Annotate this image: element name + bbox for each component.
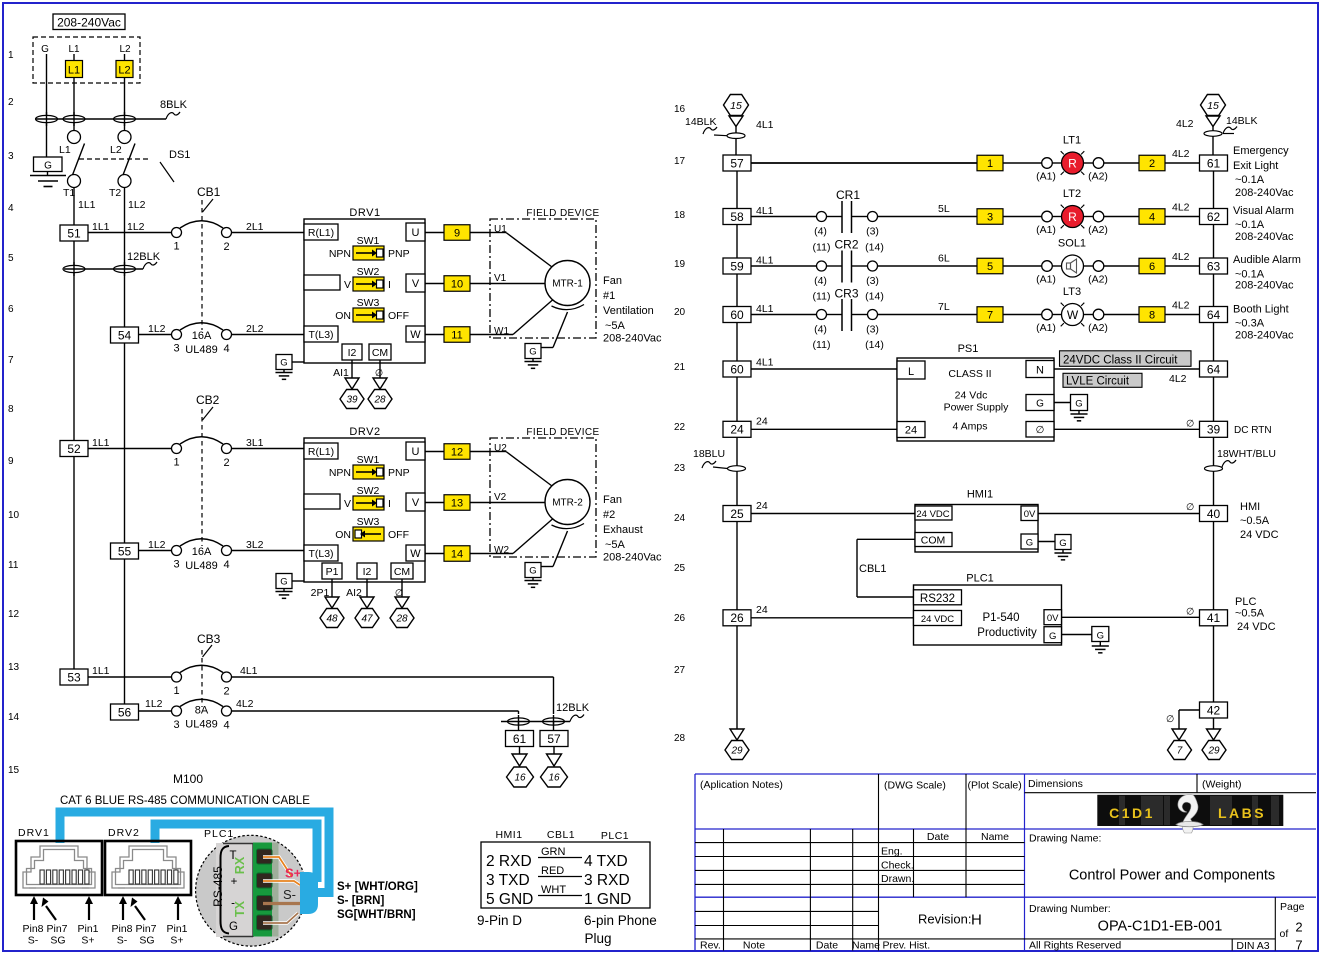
svg-text:Productivity: Productivity bbox=[977, 627, 1037, 639]
svg-text:24: 24 bbox=[756, 416, 768, 428]
svg-text:COM: COM bbox=[921, 535, 946, 547]
svg-text:(A1): (A1) bbox=[1036, 274, 1056, 286]
svg-text:CB1: CB1 bbox=[197, 185, 221, 199]
svg-text:7: 7 bbox=[1177, 746, 1183, 757]
svg-text:42: 42 bbox=[1207, 703, 1221, 717]
svg-text:57: 57 bbox=[547, 732, 561, 746]
svg-text:6: 6 bbox=[1149, 261, 1155, 273]
svg-text:~0.1A: ~0.1A bbox=[1235, 219, 1265, 231]
svg-text:CBL1: CBL1 bbox=[547, 829, 575, 841]
svg-text:R(L1): R(L1) bbox=[308, 446, 334, 458]
svg-text:12: 12 bbox=[8, 609, 20, 620]
svg-text:Pin1: Pin1 bbox=[77, 923, 98, 935]
svg-text:0V: 0V bbox=[1024, 509, 1036, 520]
svg-text:61: 61 bbox=[1207, 156, 1221, 170]
svg-text:PS1: PS1 bbox=[958, 343, 979, 355]
svg-text:SW2: SW2 bbox=[357, 485, 380, 497]
svg-text:4L1: 4L1 bbox=[756, 205, 774, 217]
svg-text:24 VDC: 24 VDC bbox=[1240, 529, 1279, 541]
svg-text:1L1: 1L1 bbox=[92, 221, 110, 233]
svg-text:OFF: OFF bbox=[388, 310, 409, 322]
svg-text:5: 5 bbox=[8, 253, 14, 264]
svg-text:G: G bbox=[1075, 399, 1082, 410]
svg-text:(Plot Scale): (Plot Scale) bbox=[968, 780, 1022, 792]
svg-text:Pin7: Pin7 bbox=[46, 923, 67, 935]
svg-text:5: 5 bbox=[987, 261, 993, 273]
svg-text:14BLK: 14BLK bbox=[1226, 115, 1258, 127]
svg-text:DRV1: DRV1 bbox=[18, 827, 50, 839]
svg-text:∅: ∅ bbox=[1186, 607, 1194, 618]
svg-text:(Aplication Notes): (Aplication Notes) bbox=[700, 779, 783, 791]
svg-text:Drawing Name:: Drawing Name: bbox=[1029, 833, 1101, 845]
svg-text:5L: 5L bbox=[938, 203, 950, 215]
svg-text:L1: L1 bbox=[68, 65, 80, 77]
svg-text:29: 29 bbox=[730, 746, 743, 757]
svg-text:25: 25 bbox=[674, 563, 686, 574]
svg-text:39: 39 bbox=[346, 395, 358, 406]
svg-text:WHT: WHT bbox=[541, 884, 566, 896]
svg-text:SG: SG bbox=[139, 935, 154, 947]
svg-text:(3): (3) bbox=[866, 324, 879, 336]
svg-text:16: 16 bbox=[674, 104, 686, 115]
svg-text:208-240Vac: 208-240Vac bbox=[57, 16, 121, 30]
svg-text:4L2: 4L2 bbox=[1172, 202, 1190, 214]
svg-text:(A2): (A2) bbox=[1088, 171, 1108, 183]
svg-text:4L1: 4L1 bbox=[756, 303, 774, 315]
svg-text:L: L bbox=[908, 366, 914, 378]
svg-text:1: 1 bbox=[173, 457, 179, 469]
svg-text:60: 60 bbox=[730, 308, 744, 322]
svg-text:U: U bbox=[412, 227, 420, 239]
svg-text:CBL1: CBL1 bbox=[859, 563, 887, 575]
svg-text:W: W bbox=[410, 329, 421, 341]
svg-text:18: 18 bbox=[674, 210, 686, 221]
svg-text:(DWG Scale): (DWG Scale) bbox=[884, 780, 946, 792]
svg-text:24: 24 bbox=[756, 500, 768, 512]
svg-text:∅: ∅ bbox=[1166, 714, 1174, 725]
svg-text:U2: U2 bbox=[494, 443, 507, 454]
svg-text:(A1): (A1) bbox=[1036, 171, 1056, 183]
svg-text:7L: 7L bbox=[938, 301, 950, 313]
svg-text:14: 14 bbox=[8, 712, 20, 723]
svg-text:208-240Vac: 208-240Vac bbox=[1235, 187, 1294, 199]
svg-text:24 VDC: 24 VDC bbox=[916, 509, 949, 520]
svg-text:9: 9 bbox=[8, 456, 14, 467]
svg-text:4: 4 bbox=[1149, 212, 1155, 224]
svg-text:26: 26 bbox=[730, 611, 744, 625]
svg-text:DRV2: DRV2 bbox=[108, 827, 140, 839]
svg-text:22: 22 bbox=[674, 422, 686, 433]
svg-text:(14): (14) bbox=[865, 242, 884, 254]
svg-text:16: 16 bbox=[514, 773, 526, 784]
svg-text:3L1: 3L1 bbox=[246, 437, 264, 449]
svg-text:10: 10 bbox=[8, 510, 20, 521]
svg-text:1: 1 bbox=[173, 685, 179, 697]
svg-text:V2: V2 bbox=[494, 492, 507, 503]
svg-text:20: 20 bbox=[674, 307, 686, 318]
svg-text:RS232: RS232 bbox=[920, 593, 955, 605]
svg-text:S+: S+ bbox=[81, 935, 94, 947]
svg-text:0V: 0V bbox=[1047, 613, 1059, 624]
svg-text:LABS: LABS bbox=[1218, 805, 1266, 821]
svg-text:2 RXD: 2 RXD bbox=[486, 853, 532, 870]
svg-text:(A2): (A2) bbox=[1088, 274, 1108, 286]
svg-text:4: 4 bbox=[223, 343, 229, 355]
svg-text:64: 64 bbox=[1207, 362, 1221, 376]
svg-text:(3): (3) bbox=[866, 275, 879, 287]
svg-text:All Rights Reserved: All Rights Reserved bbox=[1029, 940, 1121, 952]
svg-text:L2: L2 bbox=[110, 144, 122, 156]
svg-text:NPN: NPN bbox=[329, 467, 351, 479]
svg-text:(14): (14) bbox=[865, 339, 884, 351]
svg-text:PLC: PLC bbox=[1235, 596, 1256, 608]
svg-text:SW3: SW3 bbox=[357, 297, 380, 309]
svg-text:7: 7 bbox=[8, 355, 14, 366]
svg-text:HMI: HMI bbox=[1240, 501, 1260, 513]
svg-text:6L: 6L bbox=[938, 253, 950, 265]
svg-text:ON: ON bbox=[335, 529, 351, 541]
svg-text:of: of bbox=[1280, 928, 1289, 940]
svg-text:16A: 16A bbox=[192, 330, 212, 342]
svg-text:4L2: 4L2 bbox=[1172, 148, 1190, 160]
svg-text:M100: M100 bbox=[173, 772, 203, 786]
svg-text:CR3: CR3 bbox=[834, 287, 858, 301]
svg-text:Control Power and Components: Control Power and Components bbox=[1069, 868, 1275, 884]
svg-text:CAT 6 BLUE RS-485 COMMUNICATIO: CAT 6 BLUE RS-485 COMMUNICATION CABLE bbox=[60, 795, 310, 807]
svg-text:Fan: Fan bbox=[603, 275, 622, 287]
svg-text:8: 8 bbox=[1149, 310, 1155, 322]
svg-text:~0.5A: ~0.5A bbox=[1240, 515, 1270, 527]
svg-text:ON: ON bbox=[335, 310, 351, 322]
svg-text:2: 2 bbox=[1295, 920, 1302, 935]
svg-text:Note: Note bbox=[743, 940, 765, 952]
svg-text:1L1: 1L1 bbox=[92, 437, 110, 449]
svg-text:2: 2 bbox=[8, 97, 14, 108]
svg-text:TX: TX bbox=[233, 900, 247, 917]
svg-text:8: 8 bbox=[8, 404, 14, 415]
svg-text:1: 1 bbox=[173, 241, 179, 253]
svg-text:(4): (4) bbox=[814, 324, 827, 336]
svg-text:L2: L2 bbox=[118, 65, 130, 77]
svg-text:(Weight): (Weight) bbox=[1202, 779, 1241, 791]
svg-text:G: G bbox=[1059, 538, 1066, 549]
svg-text:RX: RX bbox=[233, 856, 247, 874]
svg-text:Plug: Plug bbox=[585, 931, 612, 946]
svg-text:1: 1 bbox=[8, 50, 14, 61]
svg-text:3 TXD: 3 TXD bbox=[486, 872, 530, 889]
svg-text:Drawing Number:: Drawing Number: bbox=[1029, 903, 1111, 915]
svg-text:1L2: 1L2 bbox=[128, 199, 146, 211]
svg-text:208-240Vac: 208-240Vac bbox=[603, 333, 662, 345]
svg-text:I: I bbox=[388, 279, 391, 291]
svg-text:52: 52 bbox=[67, 442, 81, 456]
svg-text:S+ [WHT/ORG]: S+ [WHT/ORG] bbox=[337, 881, 418, 893]
svg-text:(11): (11) bbox=[813, 291, 831, 303]
svg-text:LT1: LT1 bbox=[1063, 135, 1081, 147]
svg-text:24 VDC: 24 VDC bbox=[1237, 621, 1276, 633]
svg-text:LT2: LT2 bbox=[1063, 188, 1081, 200]
svg-text:G: G bbox=[1026, 538, 1033, 549]
svg-text:Rev.: Rev. bbox=[700, 940, 721, 952]
svg-text:G: G bbox=[44, 161, 52, 172]
svg-text:LT3: LT3 bbox=[1063, 286, 1081, 298]
svg-text:(A1): (A1) bbox=[1036, 224, 1056, 236]
svg-text:7: 7 bbox=[987, 310, 993, 322]
svg-text:9: 9 bbox=[454, 228, 460, 240]
svg-text:47: 47 bbox=[361, 614, 373, 625]
svg-text:24 Vdc: 24 Vdc bbox=[955, 390, 988, 402]
svg-text:L1: L1 bbox=[59, 144, 71, 156]
svg-text:FIELD DEVICE: FIELD DEVICE bbox=[526, 427, 599, 438]
svg-text:#1: #1 bbox=[603, 290, 615, 302]
svg-text:~5A: ~5A bbox=[605, 539, 626, 551]
svg-text:1L1: 1L1 bbox=[78, 199, 96, 211]
svg-text:Visual Alarm: Visual Alarm bbox=[1233, 205, 1294, 217]
svg-text:4L2: 4L2 bbox=[1172, 300, 1190, 312]
svg-text:56: 56 bbox=[118, 705, 132, 719]
svg-text:~0.3A: ~0.3A bbox=[1235, 318, 1265, 330]
svg-text:U1: U1 bbox=[494, 224, 507, 235]
svg-text:NPN: NPN bbox=[329, 248, 351, 260]
svg-text:4L1: 4L1 bbox=[756, 119, 774, 131]
svg-text:S-: S- bbox=[117, 935, 128, 947]
svg-text:CB2: CB2 bbox=[196, 393, 220, 407]
svg-text:4L2: 4L2 bbox=[1176, 118, 1194, 130]
svg-text:1L2: 1L2 bbox=[148, 539, 166, 551]
svg-text:Audible Alarm: Audible Alarm bbox=[1233, 254, 1301, 266]
svg-text:DIN A3: DIN A3 bbox=[1236, 940, 1269, 952]
svg-text:W: W bbox=[410, 548, 421, 560]
svg-text:R(L1): R(L1) bbox=[308, 227, 334, 239]
svg-text:S- [BRN]: S- [BRN] bbox=[337, 895, 384, 907]
svg-text:Ventilation: Ventilation bbox=[603, 305, 654, 317]
svg-text:V1: V1 bbox=[494, 273, 507, 284]
svg-text:PNP: PNP bbox=[388, 248, 410, 260]
svg-text:29: 29 bbox=[1207, 746, 1220, 757]
svg-text:(4): (4) bbox=[814, 226, 827, 238]
svg-text:Exhaust: Exhaust bbox=[603, 524, 643, 536]
svg-text:N: N bbox=[1036, 365, 1044, 377]
svg-text:3L2: 3L2 bbox=[246, 539, 264, 551]
svg-text:13: 13 bbox=[451, 498, 463, 510]
svg-text:Page: Page bbox=[1280, 901, 1305, 913]
svg-text:41: 41 bbox=[1207, 611, 1221, 625]
svg-text:15: 15 bbox=[1207, 100, 1219, 112]
svg-text:V: V bbox=[344, 279, 351, 291]
svg-text:4 Amps: 4 Amps bbox=[952, 421, 987, 433]
svg-text:1L1: 1L1 bbox=[92, 665, 110, 677]
svg-text:4L2: 4L2 bbox=[1169, 373, 1187, 385]
svg-text:6: 6 bbox=[8, 304, 14, 315]
svg-text:H: H bbox=[971, 912, 982, 929]
svg-text:P1: P1 bbox=[326, 566, 339, 578]
svg-text:4 TXD: 4 TXD bbox=[584, 853, 628, 870]
svg-text:28: 28 bbox=[395, 614, 408, 625]
svg-text:HMI1: HMI1 bbox=[495, 829, 522, 841]
svg-text:P1-540: P1-540 bbox=[982, 612, 1019, 624]
svg-text:DC RTN: DC RTN bbox=[1234, 425, 1272, 436]
svg-text:Fan: Fan bbox=[603, 494, 622, 506]
svg-text:28: 28 bbox=[373, 395, 386, 406]
svg-text:W: W bbox=[1067, 308, 1079, 322]
svg-text:18BLU: 18BLU bbox=[693, 448, 725, 460]
svg-text:54: 54 bbox=[118, 328, 132, 342]
svg-text:55: 55 bbox=[118, 544, 132, 558]
svg-text:Pin8: Pin8 bbox=[111, 923, 132, 935]
svg-text:MTR-2: MTR-2 bbox=[552, 498, 583, 509]
svg-text:208-240Vac: 208-240Vac bbox=[603, 552, 662, 564]
svg-text:MTR-1: MTR-1 bbox=[552, 279, 583, 290]
svg-text:Pin7: Pin7 bbox=[135, 923, 156, 935]
svg-text:G: G bbox=[1097, 631, 1104, 642]
svg-text:G: G bbox=[1049, 631, 1056, 642]
svg-text:3: 3 bbox=[173, 559, 179, 571]
svg-text:4: 4 bbox=[8, 203, 14, 214]
svg-text:1 GND: 1 GND bbox=[584, 891, 631, 908]
svg-text:1L2: 1L2 bbox=[127, 221, 145, 233]
svg-text:26: 26 bbox=[674, 613, 686, 624]
svg-text:6-pin Phone: 6-pin Phone bbox=[584, 913, 657, 928]
svg-text:4: 4 bbox=[223, 720, 229, 732]
svg-text:L2: L2 bbox=[119, 44, 131, 55]
svg-text:∅: ∅ bbox=[1186, 502, 1194, 513]
svg-text:S-: S- bbox=[28, 935, 39, 947]
svg-text:~0.1A: ~0.1A bbox=[1235, 174, 1265, 186]
svg-text:11: 11 bbox=[8, 560, 19, 571]
svg-text:G: G bbox=[41, 44, 49, 55]
svg-text:SG[WHT/BRN]: SG[WHT/BRN] bbox=[337, 909, 416, 921]
svg-text:16A: 16A bbox=[192, 546, 212, 558]
svg-text:CM: CM bbox=[372, 347, 388, 359]
svg-text:UL489: UL489 bbox=[185, 344, 217, 356]
svg-text:I2: I2 bbox=[363, 566, 372, 578]
svg-text:RED: RED bbox=[541, 865, 564, 877]
svg-text:Name: Name bbox=[852, 940, 880, 952]
svg-text:48: 48 bbox=[326, 614, 338, 625]
svg-text:G: G bbox=[529, 566, 536, 577]
svg-text:3: 3 bbox=[173, 719, 179, 731]
svg-text:3: 3 bbox=[173, 343, 179, 355]
svg-text:4: 4 bbox=[223, 559, 229, 571]
svg-text:CR1: CR1 bbox=[836, 188, 860, 202]
svg-text:C1D1: C1D1 bbox=[1109, 805, 1155, 821]
svg-text:PLC1: PLC1 bbox=[601, 830, 629, 842]
svg-text:2L1: 2L1 bbox=[246, 221, 264, 233]
svg-text:S-: S- bbox=[283, 887, 296, 902]
svg-text:V: V bbox=[412, 497, 420, 509]
svg-text:63: 63 bbox=[1207, 259, 1221, 273]
svg-text:208-240Vac: 208-240Vac bbox=[1235, 280, 1294, 292]
svg-text:SOL1: SOL1 bbox=[1058, 238, 1086, 250]
svg-text:1: 1 bbox=[987, 158, 993, 170]
svg-text:Prev. Hist.: Prev. Hist. bbox=[883, 940, 931, 952]
svg-text:~0.5A: ~0.5A bbox=[1235, 608, 1265, 620]
svg-text:3: 3 bbox=[8, 151, 14, 162]
svg-text:23: 23 bbox=[674, 463, 686, 474]
svg-text:8BLK: 8BLK bbox=[160, 99, 188, 111]
svg-text:39: 39 bbox=[1207, 423, 1221, 437]
svg-text:24: 24 bbox=[674, 513, 686, 524]
svg-text:(A1): (A1) bbox=[1036, 322, 1056, 334]
svg-text:Eng.: Eng. bbox=[881, 846, 903, 858]
svg-text:Date: Date bbox=[927, 831, 949, 843]
svg-text:3: 3 bbox=[987, 212, 993, 224]
svg-text:(11): (11) bbox=[813, 242, 831, 254]
svg-text:1L2: 1L2 bbox=[148, 323, 166, 335]
svg-text:HMI1: HMI1 bbox=[967, 489, 993, 501]
svg-text:DRV1: DRV1 bbox=[349, 207, 380, 219]
svg-text:2: 2 bbox=[1149, 158, 1155, 170]
svg-text:OPA-C1D1-EB-001: OPA-C1D1-EB-001 bbox=[1098, 919, 1223, 935]
svg-text:9-Pin D: 9-Pin D bbox=[477, 913, 522, 928]
svg-text:4L1: 4L1 bbox=[240, 665, 258, 677]
svg-text:AI1: AI1 bbox=[333, 367, 349, 379]
svg-text:GRN: GRN bbox=[541, 846, 566, 858]
svg-text:CB3: CB3 bbox=[197, 632, 221, 646]
svg-text:V: V bbox=[412, 278, 420, 290]
svg-text:U: U bbox=[412, 446, 420, 458]
svg-text:58: 58 bbox=[730, 210, 744, 224]
svg-text:14BLK: 14BLK bbox=[685, 116, 717, 128]
svg-text:SW1: SW1 bbox=[357, 235, 380, 247]
svg-text:24: 24 bbox=[730, 423, 744, 437]
svg-text:RS-485: RS-485 bbox=[211, 866, 225, 907]
svg-text:Emergency: Emergency bbox=[1233, 145, 1289, 157]
svg-text:SW1: SW1 bbox=[357, 454, 380, 466]
svg-text:L1: L1 bbox=[68, 44, 80, 55]
svg-text:208-240Vac: 208-240Vac bbox=[1235, 231, 1294, 243]
svg-text:24: 24 bbox=[756, 604, 768, 616]
svg-text:∅: ∅ bbox=[1186, 419, 1194, 430]
svg-text:15: 15 bbox=[730, 100, 742, 112]
svg-text:40: 40 bbox=[1207, 507, 1221, 521]
svg-text:G: G bbox=[280, 577, 287, 588]
svg-text:53: 53 bbox=[67, 670, 81, 684]
svg-text:57: 57 bbox=[730, 156, 744, 170]
svg-text:2: 2 bbox=[223, 457, 229, 469]
svg-text:S+: S+ bbox=[285, 866, 302, 881]
svg-text:(A2): (A2) bbox=[1088, 224, 1108, 236]
svg-text:Pin8: Pin8 bbox=[22, 923, 43, 935]
svg-text:OFF: OFF bbox=[388, 529, 409, 541]
svg-text:FIELD DEVICE: FIELD DEVICE bbox=[526, 208, 599, 219]
svg-text:14: 14 bbox=[451, 549, 463, 561]
svg-text:28: 28 bbox=[674, 733, 686, 744]
svg-text:7: 7 bbox=[1295, 938, 1302, 953]
svg-text:Pin1: Pin1 bbox=[166, 923, 187, 935]
svg-text:Revision:: Revision: bbox=[918, 912, 971, 927]
svg-text:CM: CM bbox=[394, 566, 410, 578]
svg-text:∅: ∅ bbox=[1036, 425, 1045, 436]
svg-text:2: 2 bbox=[223, 241, 229, 253]
svg-text:15: 15 bbox=[8, 765, 20, 776]
svg-text:Drawn.: Drawn. bbox=[881, 873, 914, 885]
svg-text:~5A: ~5A bbox=[605, 320, 626, 332]
svg-text:(11): (11) bbox=[813, 339, 831, 351]
svg-text:Booth Light: Booth Light bbox=[1233, 304, 1289, 316]
svg-text:CR2: CR2 bbox=[834, 238, 858, 252]
svg-text:T(L3): T(L3) bbox=[308, 329, 333, 341]
svg-text:SW2: SW2 bbox=[357, 266, 380, 278]
svg-text:12: 12 bbox=[451, 447, 463, 459]
svg-text:(4): (4) bbox=[814, 275, 827, 287]
svg-text:PLC1: PLC1 bbox=[204, 828, 234, 840]
svg-text:Exit Light: Exit Light bbox=[1233, 160, 1278, 172]
svg-text:5 GND: 5 GND bbox=[486, 891, 533, 908]
svg-text:2: 2 bbox=[223, 686, 229, 698]
svg-text:Dimensions: Dimensions bbox=[1028, 778, 1083, 790]
svg-text:UL489: UL489 bbox=[185, 719, 217, 731]
